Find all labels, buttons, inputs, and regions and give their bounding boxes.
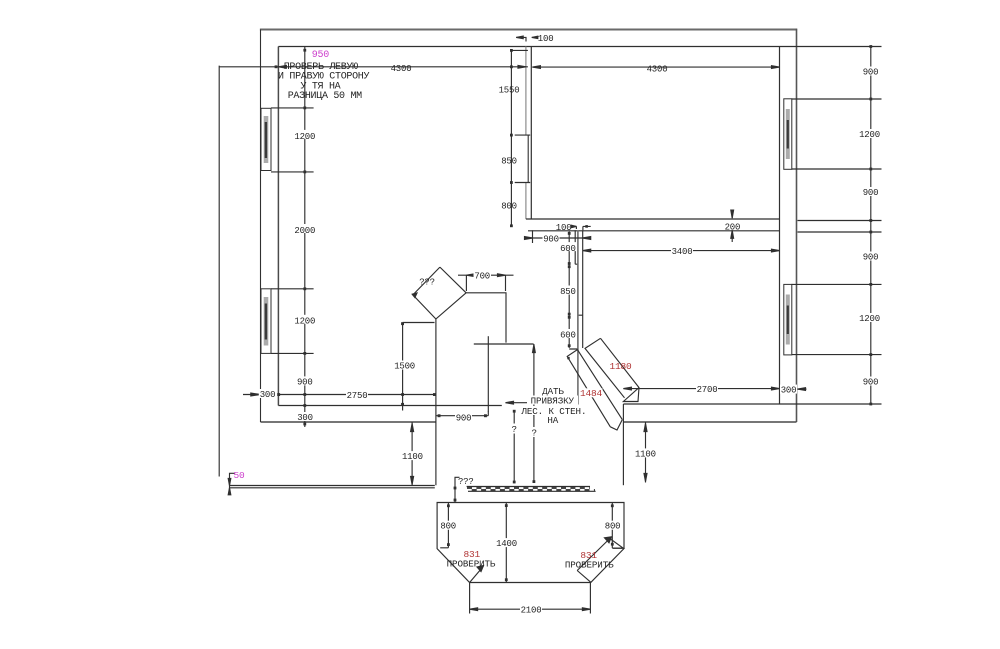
dim 900 stair line — [436, 411, 488, 416]
svg-text:300: 300 — [260, 390, 276, 400]
dim chain left ticks — [303, 49, 306, 426]
text 300 right — [780, 385, 797, 396]
svg-text:300: 300 — [781, 386, 797, 396]
leader 50 bracket — [230, 473, 236, 494]
svg-text:ПРИВЯЗКУ: ПРИВЯЗКУ — [531, 395, 575, 406]
text 1500 — [394, 361, 416, 372]
trapezoid corner leader left — [470, 566, 484, 583]
text chain x511 labels — [499, 85, 520, 211]
svg-text:3400: 3400 — [672, 247, 693, 257]
dim 4300 left arrows — [278, 65, 526, 68]
leader ??? above trapezoid — [455, 477, 460, 502]
svg-text:1200: 1200 — [859, 130, 880, 140]
diagonal band 1484 — [567, 350, 622, 430]
porch right edge — [622, 404, 624, 485]
dim 700 line — [458, 275, 514, 291]
svg-text:???: ??? — [458, 477, 474, 487]
dim 3400 line — [583, 250, 780, 252]
scaffold offset double line bottom-left — [230, 486, 435, 488]
svg-text:900: 900 — [543, 234, 559, 244]
svg-text:600: 600 — [560, 244, 576, 254]
outer wall — [260, 29, 797, 31]
text 1100 right — [634, 448, 656, 459]
svg-text:1100: 1100 — [635, 449, 656, 459]
svg-text:2750: 2750 — [347, 391, 368, 401]
svg-text:1200: 1200 — [294, 132, 315, 142]
top bracket 100 marks — [516, 37, 537, 41]
svg-text:50: 50 — [234, 470, 246, 481]
svg-text:1550: 1550 — [499, 85, 520, 95]
dim 300 bottom-left arrows — [251, 393, 261, 396]
svg-text:1100: 1100 — [402, 452, 423, 462]
dim 800 trapezoid left — [440, 503, 448, 548]
svg-text:?: ? — [511, 424, 516, 435]
dim 1500 line — [403, 323, 435, 411]
text 1100 left — [401, 451, 423, 462]
svg-text:850: 850 — [560, 287, 576, 297]
text 900 stair — [455, 412, 472, 423]
text 800 trapezoid left — [440, 521, 457, 532]
svg-text:1400: 1400 — [496, 539, 517, 549]
dim 200 arrows — [731, 211, 733, 242]
diagonal band 1180 — [585, 338, 639, 401]
leader line left — [218, 66, 220, 477]
svg-text:950: 950 — [312, 50, 330, 61]
interior wall door opening line — [527, 135, 529, 182]
dim 1100 left line — [411, 422, 413, 486]
svg-text:1200: 1200 — [294, 317, 315, 327]
window W3 right wall upper — [784, 99, 792, 170]
text 700 — [474, 271, 492, 282]
svg-text:900: 900 — [863, 377, 879, 387]
window W2 left wall lower — [261, 289, 271, 354]
svg-text:800: 800 — [605, 522, 621, 532]
dim 4300 right room line — [532, 66, 779, 68]
svg-text:700: 700 — [474, 272, 490, 282]
svg-text:800: 800 — [440, 522, 456, 532]
svg-text:2100: 2100 — [521, 606, 542, 616]
svg-text:100: 100 — [538, 34, 554, 44]
text note attach scaffold — [520, 386, 586, 426]
svg-text:900: 900 — [297, 377, 313, 387]
dim chain right x871 line — [870, 47, 872, 405]
text 831 proverit right — [565, 550, 614, 570]
window W1 left wall upper — [261, 108, 271, 170]
svg-text:1500: 1500 — [394, 361, 415, 371]
svg-text:2000: 2000 — [294, 226, 315, 236]
scaffold strip center vertical — [575, 230, 583, 404]
trapezoid corner band right — [577, 537, 623, 582]
svg-text:100: 100 — [556, 223, 572, 233]
text 900 center — [543, 234, 560, 245]
dim 2100 line — [470, 583, 591, 614]
text question marks — [511, 424, 519, 435]
text chain 600-850-600 labels — [559, 242, 576, 341]
trapezoid porch steps — [437, 503, 624, 583]
svg-text:4300: 4300 — [391, 64, 412, 74]
svg-text:4300: 4300 — [647, 65, 668, 75]
dim 50 arrows — [228, 479, 231, 495]
dim 4300 left room line — [219, 66, 528, 68]
svg-text:?: ? — [531, 427, 536, 438]
text 800 trapezoid right — [604, 521, 621, 532]
stair shape porch platform — [436, 293, 534, 486]
dim leader vertical x514 — [513, 410, 515, 483]
hatch band scaffold plank row — [467, 487, 596, 492]
dim chain left extension lines — [271, 108, 314, 354]
svg-text:200: 200 — [725, 222, 741, 232]
dim 300 right arrows — [798, 388, 807, 390]
svg-text:1200: 1200 — [859, 314, 880, 324]
dim 900 center line — [525, 230, 591, 243]
text 1400 — [496, 538, 518, 549]
text 3400 — [671, 246, 693, 257]
text 1484 red — [580, 388, 603, 399]
dim chain right extensions — [780, 47, 882, 405]
svg-text:900: 900 — [863, 188, 879, 198]
svg-text:2700: 2700 — [697, 385, 718, 395]
svg-text:900: 900 — [863, 252, 879, 262]
interior wall vertical — [525, 47, 527, 220]
text 2700 — [696, 384, 718, 395]
inner wall — [277, 47, 279, 406]
rotated square flag on stair — [412, 267, 466, 319]
dim 2750 line — [278, 394, 436, 396]
dim 1100 right line — [645, 422, 647, 483]
svg-text:НА: НА — [547, 415, 558, 426]
dim 100 mid arrow and bracket — [573, 226, 591, 230]
text 300 bottom-left — [259, 389, 277, 400]
svg-text:ПРОВЕРИТЬ: ПРОВЕРИТЬ — [447, 559, 496, 570]
dim chain x511 ticks — [510, 49, 513, 227]
text chain left labels — [294, 130, 316, 423]
svg-text:900: 900 — [863, 67, 879, 77]
dim chain x511 line — [510, 50, 512, 225]
dim 800 trapezoid right — [612, 503, 622, 549]
dim chain right ticks — [869, 45, 872, 405]
text 2100 — [520, 605, 542, 616]
interior wall horizontal — [526, 219, 780, 231]
svg-text:РАЗНИЦА 50 ММ: РАЗНИЦА 50 ММ — [288, 91, 362, 102]
dim chain x511 extensions — [511, 50, 530, 182]
svg-text:850: 850 — [501, 156, 517, 166]
dim leader vertical x534 — [533, 344, 535, 482]
svg-text:900: 900 — [456, 413, 472, 423]
svg-text:800: 800 — [501, 201, 517, 211]
window W4 right wall lower — [784, 284, 792, 355]
dim 2700 line — [623, 388, 779, 390]
text 2750 — [346, 390, 368, 401]
text note top-left — [278, 62, 370, 102]
svg-text:600: 600 — [560, 331, 576, 341]
text chain right labels — [859, 67, 881, 388]
svg-text:1180: 1180 — [609, 361, 632, 372]
dim 1400 line — [505, 503, 507, 583]
svg-text:300: 300 — [297, 413, 313, 423]
text 831 proverit left — [447, 549, 496, 570]
svg-text:???: ??? — [419, 278, 435, 288]
dim attach arrow horizontal — [506, 402, 534, 404]
svg-text:ПРОВЕРИТЬ: ПРОВЕРИТЬ — [565, 559, 614, 570]
dim chain left x305 line — [304, 47, 306, 428]
svg-text:1484: 1484 — [580, 388, 603, 399]
dim chain 600-850-600 line — [569, 232, 577, 350]
